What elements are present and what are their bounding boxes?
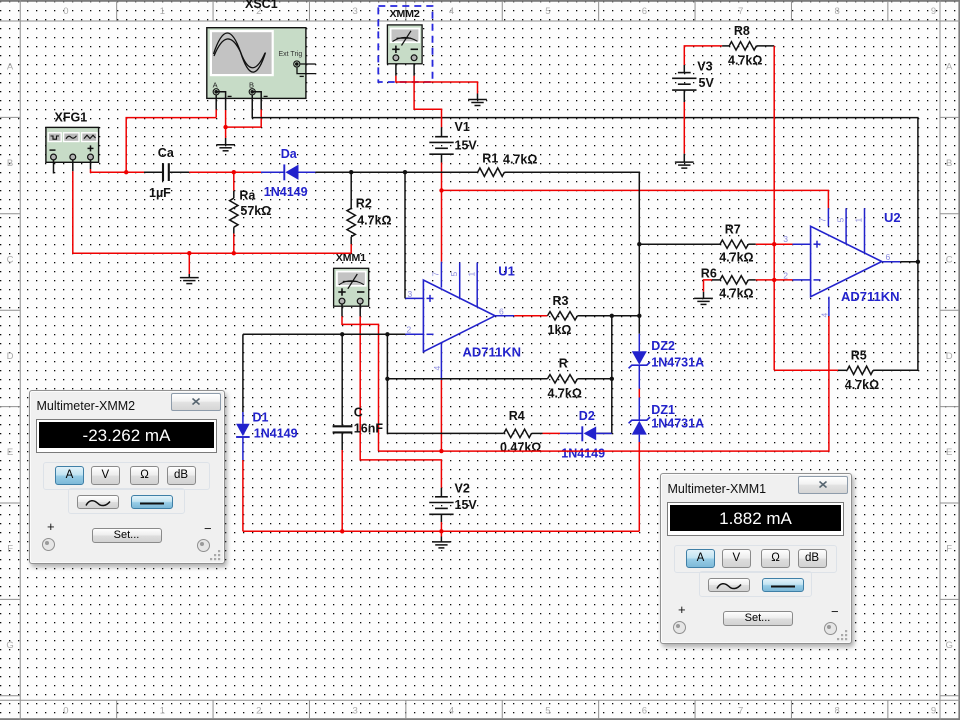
wire C bottom lead xyxy=(341,433,343,531)
junction R7 left xyxy=(637,242,641,246)
wire V2 top stub xyxy=(440,488,442,497)
wire R4 right lead xyxy=(532,432,561,434)
svg-text:4.7kΩ: 4.7kΩ xyxy=(728,53,762,67)
label R6 xyxy=(701,267,717,281)
U2 pin 3 number xyxy=(783,234,788,244)
label R8 value xyxy=(728,53,762,67)
svg-text:8: 8 xyxy=(835,706,840,717)
U1 pin 5 number xyxy=(449,272,459,277)
svg-text:V3: V3 xyxy=(697,59,712,73)
svg-text:3: 3 xyxy=(783,234,788,244)
svg-text:F: F xyxy=(946,544,952,555)
resistor R xyxy=(548,375,578,383)
junction R3 node xyxy=(610,314,614,318)
svg-text:4.7kΩ: 4.7kΩ xyxy=(357,214,391,228)
ground V3 xyxy=(675,162,694,168)
svg-text:1: 1 xyxy=(160,706,165,717)
label C xyxy=(354,405,363,419)
junction R2 top xyxy=(349,170,353,174)
wire U1 pin3 net xyxy=(404,172,406,298)
svg-text:1N4731A: 1N4731A xyxy=(651,355,704,369)
svg-text:F: F xyxy=(7,544,13,555)
wire U2 out xyxy=(900,261,918,263)
wire R1 to right column xyxy=(504,172,639,334)
svg-text:A: A xyxy=(946,62,953,73)
battery V1 xyxy=(429,137,453,155)
svg-text:2: 2 xyxy=(783,270,788,280)
svg-text:4.7kΩ: 4.7kΩ xyxy=(719,251,753,265)
wire Da left lead xyxy=(261,171,284,173)
svg-text:D: D xyxy=(946,351,953,362)
svg-text:6: 6 xyxy=(886,252,891,262)
wire DZ2 top lead xyxy=(638,334,640,352)
wire XSC1-A left to node xyxy=(126,118,216,173)
svg-text:6: 6 xyxy=(642,6,647,17)
svg-text:0: 0 xyxy=(63,6,68,17)
svg-text:XMM2: XMM2 xyxy=(390,8,420,20)
svg-text:C: C xyxy=(7,254,14,265)
svg-text:4: 4 xyxy=(432,366,442,371)
wire C top lead xyxy=(341,334,343,425)
label V2 value xyxy=(455,498,478,512)
junction rail-C xyxy=(340,529,344,533)
svg-text:7: 7 xyxy=(818,218,828,223)
svg-text:R: R xyxy=(559,357,568,371)
junction R left xyxy=(385,377,389,381)
svg-text:4: 4 xyxy=(449,6,454,17)
svg-text:R2: R2 xyxy=(356,197,372,211)
wire R6 ground lead xyxy=(704,280,721,298)
svg-text:5V: 5V xyxy=(699,76,715,90)
wire D1 top lead xyxy=(242,412,244,424)
svg-text:Da: Da xyxy=(281,147,298,161)
wire R8 right down xyxy=(756,46,774,370)
svg-text:D: D xyxy=(7,351,14,362)
svg-text:57kΩ: 57kΩ xyxy=(240,204,271,218)
svg-text:5: 5 xyxy=(545,6,550,17)
wire to R5 xyxy=(774,369,838,371)
wire U1 pin2 net xyxy=(243,334,405,412)
label C value xyxy=(354,422,384,436)
junction U1+ tap xyxy=(403,170,407,174)
zener DZ1 xyxy=(629,417,650,435)
wire XSC1-A down xyxy=(215,95,217,118)
wire V1 bottom xyxy=(441,154,443,262)
label V1 value xyxy=(455,139,478,153)
label Ca xyxy=(158,146,175,160)
label XSC1 xyxy=(245,0,278,11)
wire XMM1- down xyxy=(360,304,441,488)
label V3 xyxy=(697,59,712,73)
svg-text:1N4149: 1N4149 xyxy=(264,185,308,199)
capacitor C xyxy=(333,426,353,432)
wire DZ2-DZ1 link xyxy=(638,365,640,420)
wire R5 left lead xyxy=(838,369,847,371)
label R4 xyxy=(509,409,525,423)
svg-text:4: 4 xyxy=(820,313,830,318)
wire R-R4 branch xyxy=(387,334,503,433)
wire R5 right to U2 out xyxy=(873,262,918,371)
U2 pin 7 number xyxy=(818,218,828,223)
label R value xyxy=(548,387,582,401)
wire U2 pin3 lead xyxy=(774,243,810,245)
svg-text:7: 7 xyxy=(738,706,743,717)
label DZ1 value xyxy=(651,417,704,431)
label R5 xyxy=(851,349,867,363)
wire R7 left lead xyxy=(639,243,720,245)
U1 pin 6 number xyxy=(499,307,504,317)
ground rail xyxy=(180,278,199,284)
label D2 value xyxy=(561,447,605,461)
wire R6 right lead xyxy=(748,279,774,281)
svg-text:C: C xyxy=(946,254,953,265)
svg-text:1N4731A: 1N4731A xyxy=(651,417,704,431)
junction C top xyxy=(340,332,344,336)
junction V1-supply xyxy=(439,188,443,192)
wire Ca to Da xyxy=(189,171,261,173)
label DZ2 xyxy=(651,339,675,353)
wire U2 pin4 lead xyxy=(828,297,830,316)
U2 pin 2 number xyxy=(783,270,788,280)
svg-text:2: 2 xyxy=(407,325,412,335)
battery V2 xyxy=(429,497,453,515)
junction A-tap xyxy=(124,170,128,174)
svg-text:5: 5 xyxy=(449,272,459,277)
label R xyxy=(559,357,568,371)
U1 pin 7 number xyxy=(431,272,441,277)
junction rail-V2 xyxy=(439,529,443,533)
wire Ca left lead xyxy=(144,171,162,173)
svg-text:XMM1: XMM1 xyxy=(336,252,366,264)
resistor R5 xyxy=(847,366,873,374)
U1 pin 4 number xyxy=(432,366,442,371)
label U1 xyxy=(498,264,515,279)
label R4 value xyxy=(500,440,541,454)
label R7 value xyxy=(719,251,753,265)
junction pin4-rail xyxy=(439,449,443,453)
capacitor Ca xyxy=(163,163,169,181)
wire Ra top xyxy=(233,172,235,198)
wire XMM1+ down xyxy=(342,304,379,451)
resistor R1 xyxy=(478,168,505,176)
label DZ2 value xyxy=(651,355,704,369)
wire Ra bottom xyxy=(233,227,235,253)
resistor Ra xyxy=(230,198,238,227)
svg-text:4.7kΩ: 4.7kΩ xyxy=(845,378,879,392)
wire XFG1- stub xyxy=(53,160,55,174)
svg-text:4.7kΩ: 4.7kΩ xyxy=(719,287,753,301)
label R7 xyxy=(725,222,741,236)
svg-text:3: 3 xyxy=(408,289,413,299)
label V2 xyxy=(455,482,470,496)
svg-text:D2: D2 xyxy=(579,409,595,423)
svg-text:7: 7 xyxy=(738,6,743,17)
Multimeter-XMM1 dialog xyxy=(660,473,852,644)
wire R left lead xyxy=(387,378,547,380)
wire V2 bottom xyxy=(440,514,442,531)
label Ca value xyxy=(149,186,171,200)
wire XSC1 ground link xyxy=(226,92,262,127)
label R3 value xyxy=(548,323,572,337)
wire XMM2+ to ground xyxy=(396,64,478,99)
wire V3 bottom xyxy=(683,90,685,162)
junction R branch xyxy=(385,332,389,336)
svg-text:7: 7 xyxy=(431,272,441,277)
label Da xyxy=(281,147,298,161)
svg-text:5: 5 xyxy=(545,706,550,717)
wire XMM2- to V1 xyxy=(414,64,441,128)
wire Ca right lead xyxy=(170,171,189,173)
zener DZ2 xyxy=(629,351,650,368)
svg-text:15V: 15V xyxy=(455,139,478,153)
svg-text:8: 8 xyxy=(835,6,840,17)
svg-text:U1: U1 xyxy=(498,264,515,279)
label D2 xyxy=(579,409,595,423)
svg-text:R3: R3 xyxy=(553,294,569,308)
junction rail-ground xyxy=(187,251,191,255)
selection box XMM2 xyxy=(378,6,432,82)
op-amp U2 xyxy=(811,208,901,297)
svg-text:G: G xyxy=(6,640,13,651)
svg-text:DZ2: DZ2 xyxy=(651,339,675,353)
svg-text:U2: U2 xyxy=(884,210,901,225)
svg-text:DZ1: DZ1 xyxy=(651,403,675,417)
svg-text:XSC1: XSC1 xyxy=(245,0,278,11)
svg-text:R6: R6 xyxy=(701,267,717,281)
junction scope-ground node xyxy=(223,125,227,129)
svg-text:1: 1 xyxy=(466,272,476,277)
diode Da xyxy=(284,164,315,180)
Multimeter-XMM2 dialog xyxy=(29,390,225,564)
resistor R6 xyxy=(720,276,748,284)
wire supply to U2 pin7 xyxy=(442,190,829,208)
label U2 xyxy=(884,210,901,225)
U1 pin 1 number xyxy=(466,272,476,277)
wire XFG1+ to Ca xyxy=(91,160,145,172)
label Ra xyxy=(239,189,256,203)
svg-text:R7: R7 xyxy=(725,222,741,236)
svg-text:15V: 15V xyxy=(455,498,478,512)
svg-text:1N4149: 1N4149 xyxy=(561,447,605,461)
svg-text:R1: R1 xyxy=(482,152,498,166)
wire U1 out to R3 xyxy=(514,315,547,317)
label D1 xyxy=(253,411,269,425)
resistor R7 xyxy=(720,240,748,248)
battery V3 xyxy=(672,73,696,91)
svg-text:R8: R8 xyxy=(734,24,750,38)
U1 pin 2 number xyxy=(407,325,412,335)
U1 pin 3 number xyxy=(408,289,413,299)
multimeter icon XMM2 xyxy=(387,25,422,64)
oscilloscope XSC1 xyxy=(207,28,316,99)
ground scope xyxy=(216,145,235,151)
resistor R4 xyxy=(504,429,532,437)
svg-text:1N4149: 1N4149 xyxy=(254,427,298,441)
junction R6 right xyxy=(772,278,776,282)
label R5 value xyxy=(845,378,879,392)
label V3 value xyxy=(699,76,715,90)
svg-text:E: E xyxy=(946,447,952,458)
label U2 part xyxy=(841,289,900,304)
label U1 part xyxy=(463,345,522,360)
label R3 xyxy=(553,294,569,308)
wire D2 left lead xyxy=(560,432,582,434)
svg-text:Ext Trig: Ext Trig xyxy=(279,51,303,58)
svg-text:E: E xyxy=(7,447,13,458)
label Ra value xyxy=(240,204,271,218)
svg-text:D1: D1 xyxy=(253,411,269,425)
label R2 xyxy=(356,197,372,211)
svg-text:5: 5 xyxy=(835,218,845,223)
svg-text:1kΩ: 1kΩ xyxy=(548,323,572,337)
svg-text:Ca: Ca xyxy=(158,146,175,160)
label R2 value xyxy=(357,214,391,228)
wire U2 pin2 lead xyxy=(774,279,810,281)
label DZ1 xyxy=(651,403,675,417)
svg-text:AD711KN: AD711KN xyxy=(841,289,900,304)
label XFG1 xyxy=(55,111,88,125)
junction R right xyxy=(610,377,614,381)
svg-text:4.7kΩ: 4.7kΩ xyxy=(548,387,582,401)
U2 pin 4 number xyxy=(820,313,830,318)
svg-text:16nF: 16nF xyxy=(354,422,384,436)
svg-text:V1: V1 xyxy=(455,120,470,134)
wire U1 pin4 down xyxy=(440,380,442,451)
junction R3 right column xyxy=(637,314,641,318)
svg-text:1µF: 1µF xyxy=(149,186,171,200)
wire R right lead xyxy=(578,378,612,380)
svg-text:6: 6 xyxy=(642,706,647,717)
svg-text:AD711KN: AD711KN xyxy=(463,345,522,360)
diode D1 xyxy=(236,424,250,460)
svg-text:A: A xyxy=(7,62,14,73)
svg-text:6: 6 xyxy=(499,307,504,317)
svg-text:V2: V2 xyxy=(455,482,470,496)
wire R2 bottom xyxy=(350,237,352,254)
label R1 value xyxy=(503,153,537,167)
svg-text:4.7kΩ: 4.7kΩ xyxy=(503,153,537,167)
wire DZ1 bottom xyxy=(638,435,640,532)
label R8 xyxy=(734,24,750,38)
junction U2 out xyxy=(916,260,920,264)
ground XMM2 xyxy=(468,100,487,106)
svg-text:9: 9 xyxy=(931,706,936,717)
svg-text:B: B xyxy=(7,158,13,169)
svg-text:XFG1: XFG1 xyxy=(55,111,88,125)
label XMM2 xyxy=(390,8,420,20)
svg-text:R4: R4 xyxy=(509,409,525,423)
svg-text:G: G xyxy=(946,640,953,651)
svg-text:9: 9 xyxy=(931,6,936,17)
ground R6 xyxy=(694,298,713,304)
resistor R8 xyxy=(729,42,756,50)
diode D2 xyxy=(582,426,612,441)
label XMM1 xyxy=(336,252,366,264)
svg-text:2: 2 xyxy=(256,706,261,717)
resistor R2 xyxy=(347,208,355,236)
wire D1 to rail xyxy=(242,460,244,531)
wire XFG1 common down xyxy=(73,160,351,253)
label D1 value xyxy=(254,427,298,441)
junction rail-Ra xyxy=(232,251,236,255)
svg-text:B: B xyxy=(946,158,952,169)
label V1 xyxy=(455,120,470,134)
wire rail451 main xyxy=(379,316,829,451)
svg-text:0: 0 xyxy=(63,706,68,717)
wire R2 top lead xyxy=(350,172,352,208)
svg-text:3: 3 xyxy=(353,6,358,17)
wire to scope ground xyxy=(225,127,227,144)
svg-text:1: 1 xyxy=(160,6,165,17)
label Da value xyxy=(264,185,308,199)
wire R3 right lead xyxy=(578,315,640,317)
svg-text:0.47kΩ: 0.47kΩ xyxy=(500,440,541,454)
U2 pin 6 number xyxy=(886,252,891,262)
junction R7 right xyxy=(772,242,776,246)
wire V1 top stub xyxy=(441,127,443,136)
function generator XFG1 xyxy=(46,127,99,162)
op-amp U1 xyxy=(405,262,514,380)
wire XSC1-B down-right long xyxy=(252,95,918,262)
wire Da to R1 xyxy=(315,171,477,173)
svg-text:R5: R5 xyxy=(851,349,867,363)
label R6 value xyxy=(719,287,753,301)
wire bottom rail xyxy=(243,530,639,532)
svg-text:1: 1 xyxy=(854,218,864,223)
svg-text:4: 4 xyxy=(449,706,454,717)
label R1 xyxy=(482,152,498,166)
junction Ca-Ra-Da xyxy=(232,170,236,174)
wire R8 left lead xyxy=(722,45,729,47)
svg-text:Ra: Ra xyxy=(239,189,256,203)
wire V2 ground stub xyxy=(440,531,442,541)
wire rail ground stub xyxy=(188,253,190,277)
svg-text:3: 3 xyxy=(353,706,358,717)
wire V3 top xyxy=(684,46,722,73)
wire R7 right lead xyxy=(748,243,774,245)
resistor R3 xyxy=(548,312,578,320)
U2 pin 1 number xyxy=(854,218,864,223)
wire XSC1-A second lead xyxy=(216,92,225,127)
svg-text:C: C xyxy=(354,405,363,419)
U2 pin 5 number xyxy=(835,218,845,223)
multimeter icon XMM1 xyxy=(334,268,369,306)
ground V2 xyxy=(432,542,451,548)
wire R3 node down xyxy=(596,316,612,434)
